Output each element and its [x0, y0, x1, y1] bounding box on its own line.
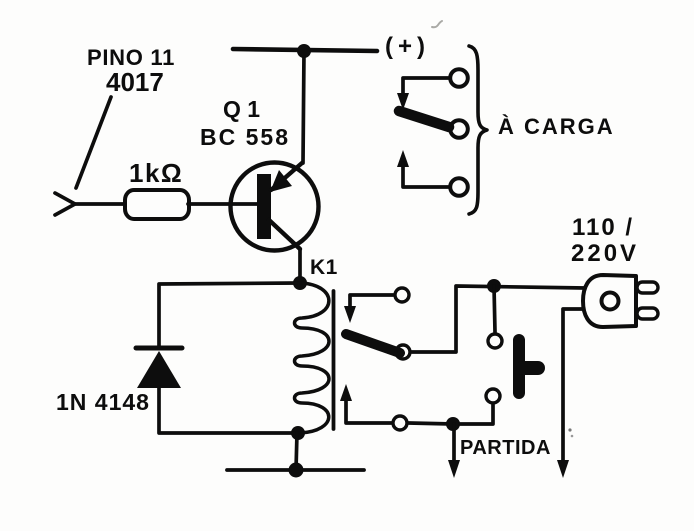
faint scan speck: [568, 428, 571, 431]
node: ground junction: [289, 463, 304, 478]
contact A: moving blade: [399, 111, 449, 127]
node: plug wire / pushbutton junction: [487, 279, 501, 293]
svg-text:1kΩ: 1kΩ: [129, 158, 183, 188]
svg-text:À CARGA: À CARGA: [498, 114, 615, 139]
input arrow (signal from pin 11): [55, 193, 75, 215]
wire: contact B common to plug: [412, 286, 585, 352]
relay core bar: [332, 291, 336, 429]
transistor Q1 BC558 (PNP): [231, 163, 319, 251]
wire coil bottom to ground rail: [296, 433, 297, 470]
wire: coil top to diode cathode: [159, 283, 300, 346]
svg-text:110 /: 110 /: [572, 214, 634, 241]
diode D1 1N4148: [136, 348, 182, 388]
relay coil K1: [295, 283, 330, 433]
svg-text:PARTIDA: PARTIDA: [460, 437, 551, 459]
contact A: middle terminal: [450, 120, 468, 138]
svg-text:BC 558: BC 558: [200, 124, 290, 150]
wire collector to relay coil: [298, 249, 302, 283]
contact B: middle terminal: [396, 345, 410, 359]
(+) supply rail: [233, 49, 377, 51]
pushbutton PARTIDA: top terminal: [488, 334, 502, 348]
svg-text:1N 4148: 1N 4148: [56, 389, 150, 415]
contact B: bottom terminal: [393, 416, 407, 430]
svg-text:4017: 4017: [106, 67, 164, 97]
svg-text:K1: K1: [310, 256, 338, 279]
wire: diode anode to coil bottom: [159, 388, 298, 433]
relay contact set A (to load): top terminal: [450, 69, 468, 87]
wire: contact B bottom terminal to junction: [409, 423, 453, 424]
svg-text:(+): (+): [385, 33, 430, 60]
wire resistor to transistor base: [188, 202, 258, 206]
node: coil top / diode branch: [293, 276, 307, 290]
ground rail: [227, 468, 364, 472]
pushbutton PARTIDA: actuator: [519, 340, 538, 393]
node: coil bottom / diode bottom: [291, 426, 305, 440]
svg-text:220V: 220V: [571, 240, 639, 267]
pushbutton PARTIDA: bottom terminal: [486, 389, 500, 403]
resistor R1 1kΩ: [125, 190, 189, 219]
contact A: NC lead with down arrow: [397, 78, 448, 110]
mains plug 110/220V: [583, 275, 658, 327]
brace: [469, 46, 487, 214]
svg-text:Q 1: Q 1: [223, 96, 260, 122]
plug second lead with down arrow: [557, 309, 583, 478]
node: emitter / rail junction: [297, 44, 311, 58]
faint scan squiggle: [432, 21, 442, 27]
wire junction to pushbutton top: [494, 286, 495, 332]
contact A: NO lead with up arrow: [397, 150, 448, 187]
node: PARTIDA junction: [446, 417, 460, 431]
relay contact set B (mains): top terminal: [395, 288, 409, 302]
wire pushbutton bottom to junction: [460, 405, 493, 424]
arrow to PARTIDA (down): [448, 424, 460, 478]
contact B: NC lead with down arrow: [344, 295, 393, 323]
leader line from label to input arrow: [76, 97, 111, 188]
contact B: NO lead with up arrow: [340, 384, 391, 423]
contact B: moving blade: [346, 334, 400, 353]
contact A: bottom terminal: [450, 178, 468, 196]
wire input to resistor: [75, 202, 125, 206]
wire emitter to (+) rail: [303, 51, 304, 163]
